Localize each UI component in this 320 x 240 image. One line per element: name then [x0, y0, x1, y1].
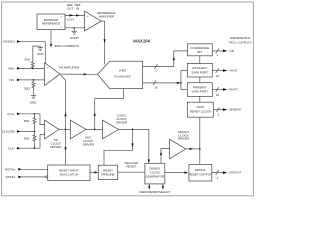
wire bandgap minus to reference amplifier: [65, 27, 85, 29]
svg-text:DRIVER: DRIVER: [83, 142, 95, 146]
svg-text:GND: GND: [30, 101, 37, 105]
svg-text:8-BIT: 8-BIT: [119, 69, 126, 73]
wire clock to reset pipeline: [104, 129, 134, 165]
wire primary port to data ready clock: [199, 96, 201, 102]
svg-text:VIN+: VIN+: [8, 67, 15, 71]
svg-text:DRIVER: DRIVER: [178, 137, 190, 141]
svg-text:+: +: [47, 65, 49, 69]
svg-text:50Ω: 50Ω: [24, 119, 30, 123]
auxiliary data port block: [187, 63, 212, 77]
label REF OUT pin: [67, 3, 73, 10]
svg-text:RSTIN-: RSTIN-: [6, 175, 16, 179]
wire A0-A7 output: [212, 68, 238, 78]
svg-text:GENERATOR: GENERATOR: [146, 175, 165, 179]
wire data ready clock to demux reset output: [199, 117, 201, 164]
svg-text:IN: IN: [76, 6, 79, 10]
svg-text:REFERENCE: REFERENCE: [42, 22, 60, 26]
svg-text:BIT: BIT: [198, 50, 203, 54]
svg-text:RSTOUT: RSTOUT: [229, 171, 241, 175]
svg-text:P0-P7: P0-P7: [229, 88, 238, 92]
svg-text:16: 16: [154, 86, 158, 90]
node CLK+ input: [7, 112, 21, 116]
wire T/H amplifier output to flash ADC: [60, 73, 98, 75]
ground GND above VIN+ termination: [33, 46, 45, 61]
wire overrange to auxiliary port: [199, 56, 201, 64]
wire VOSADJ to T/H amplifier: [20, 42, 45, 64]
node VIN- input: [9, 78, 21, 82]
label logic clock driver: [116, 114, 128, 125]
wire VIN- to T/H amplifier: [20, 79, 44, 81]
op-amp reference amplifier: [85, 11, 102, 31]
svg-text:+: +: [61, 15, 63, 19]
bus ADC data 16 wires: [143, 71, 188, 90]
svg-text:READY CLOCK: READY CLOCK: [190, 109, 211, 113]
node VIN+ input: [8, 67, 21, 71]
svg-text:BIAS CURRENTS: BIAS CURRENTS: [55, 44, 79, 48]
wire ADC clock to flash ADC: [94, 89, 124, 130]
svg-text:VOSADJ: VOSADJ: [3, 40, 15, 44]
wire T/H clock driver output: [59, 129, 70, 131]
wire delayed reset: [118, 171, 145, 173]
op-amp T/H amplifier: [45, 63, 60, 86]
wire reference amplifier to flash ADC: [101, 21, 106, 64]
ground GNDR: [70, 28, 80, 40]
node DEMUXEN input: [139, 184, 154, 194]
buffer logic clock driver: [103, 120, 119, 139]
label demux clock driver: [178, 130, 190, 141]
svg-text:DIFFERENTIAL: DIFFERENTIAL: [230, 36, 251, 40]
svg-text:RESET OUTPUT: RESET OUTPUT: [189, 173, 212, 177]
svg-text:DUAL LATCH: DUAL LATCH: [60, 173, 78, 177]
node DIVSELECT input: [154, 184, 171, 194]
label T/H clock driver: [50, 138, 62, 149]
svg-text:16: 16: [216, 74, 220, 78]
resistor 50ohm CLK- termination: [24, 132, 36, 149]
label ADC clock driver: [83, 136, 95, 147]
node RSTIN- input: [6, 175, 22, 179]
demux reset output block: [189, 164, 212, 181]
svg-text:GND: GND: [37, 52, 44, 56]
wire dual latch to reset pipeline: [90, 171, 98, 173]
bus overrange 2 wires: [143, 51, 188, 73]
node VOSADJ input: [3, 40, 21, 44]
buffer ADC clock driver: [70, 120, 86, 139]
wire P0-P7 output: [212, 87, 238, 97]
svg-text:+: +: [87, 14, 89, 18]
svg-text:CLK+: CLK+: [7, 112, 15, 116]
resistor 50ohm VIN- termination: [24, 80, 35, 91]
wire demux clock generator to driver: [160, 149, 170, 164]
wire DREADY output: [213, 107, 242, 116]
svg-text:CLK-: CLK-: [8, 146, 15, 150]
svg-text:DEMUX: DEMUX: [195, 168, 206, 172]
wire RSTOUT output: [212, 170, 242, 180]
reset pipeline block: [98, 165, 117, 179]
svg-text:50Ω: 50Ω: [24, 58, 30, 62]
svg-text:−: −: [87, 25, 89, 29]
wire clock to reset input dual latch: [64, 129, 66, 165]
bandgap reference U1: [37, 14, 65, 30]
wire bias currents: [50, 30, 52, 48]
svg-text:VIN-: VIN-: [9, 78, 15, 82]
svg-text:A0-A7: A0-A7: [229, 69, 238, 73]
label differential PECL outputs: [229, 36, 252, 45]
wire CLKCOM: [20, 131, 35, 133]
svg-text:50Ω: 50Ω: [24, 86, 30, 90]
node CLK- input: [8, 146, 21, 150]
ground GND below VIN- termination: [30, 91, 37, 104]
svg-text:PECL OUTPUTS: PECL OUTPUTS: [229, 41, 252, 45]
outer border frame: [2, 2, 254, 196]
node RSTIN+ input: [5, 167, 22, 171]
svg-text:AMPLIFIER: AMPLIFIER: [98, 15, 114, 19]
label REF IN pin: [75, 3, 81, 10]
svg-text:FLASH ADC: FLASH ADC: [114, 74, 131, 78]
reset input dual latch block: [48, 165, 90, 180]
wire OR output: [212, 49, 234, 57]
svg-text:RESET: RESET: [126, 165, 136, 169]
svg-text:50Ω: 50Ω: [24, 137, 30, 141]
svg-text:DRIVER: DRIVER: [116, 121, 128, 125]
svg-text:−: −: [47, 80, 49, 84]
svg-text:CLKCOM: CLKCOM: [2, 130, 15, 134]
wire logic clock driver output: [119, 129, 150, 164]
overrange bit block: [187, 44, 212, 56]
svg-text:+2.5V: +2.5V: [66, 18, 75, 22]
resistor 50ohm CLK+ termination: [24, 114, 36, 132]
svg-text:DATA PORT: DATA PORT: [192, 70, 208, 74]
svg-text:DRIVER: DRIVER: [50, 145, 62, 149]
svg-text:16: 16: [216, 93, 220, 97]
svg-text:RSTIN+: RSTIN+: [5, 167, 16, 171]
svg-text:T/H AMPLIFIER: T/H AMPLIFIER: [58, 65, 80, 69]
primary data port block: [187, 83, 212, 97]
wire RSTIN- with inverting bubble: [22, 176, 48, 178]
buffer T/H clock driver: [45, 120, 59, 139]
svg-text:DEMUXEN: DEMUXEN: [139, 190, 154, 194]
wire VIN+ to T/H amplifier: [20, 68, 44, 70]
svg-text:GNDR: GNDR: [70, 36, 80, 40]
wire generator to demux reset output: [165, 172, 188, 174]
data ready clock block: [187, 102, 213, 117]
svg-text:OUT: OUT: [67, 6, 73, 10]
svg-text:DATA PORT: DATA PORT: [192, 90, 208, 94]
demux clock generator block: [145, 163, 165, 184]
svg-text:MAX104: MAX104: [133, 38, 150, 43]
node CLKCOM input: [2, 130, 21, 134]
svg-text:DIVSELECT: DIVSELECT: [154, 190, 171, 194]
resistor 50ohm VIN+ termination: [24, 58, 34, 69]
8-bit flash ADC core: [98, 61, 143, 88]
wire demux clock driver output: [186, 148, 200, 150]
svg-text:DREADY: DREADY: [229, 108, 241, 112]
wire auxiliary to primary port: [199, 77, 201, 83]
label reference amplifier: [97, 11, 115, 19]
wire RSTIN+: [22, 168, 48, 170]
svg-text:PIPELINE: PIPELINE: [101, 173, 114, 177]
wire CLK+ to T/H clock driver: [20, 113, 44, 125]
buffer demux clock driver: [170, 139, 186, 159]
svg-text:−: −: [61, 25, 63, 29]
wire CLK- to T/H clock driver: [20, 135, 44, 149]
label delayed reset: [124, 161, 138, 169]
wire T/H clock input: [61, 75, 67, 129]
wire REF OUT to REF IN: [65, 14, 85, 16]
wire ADC clock driver output: [86, 129, 103, 131]
